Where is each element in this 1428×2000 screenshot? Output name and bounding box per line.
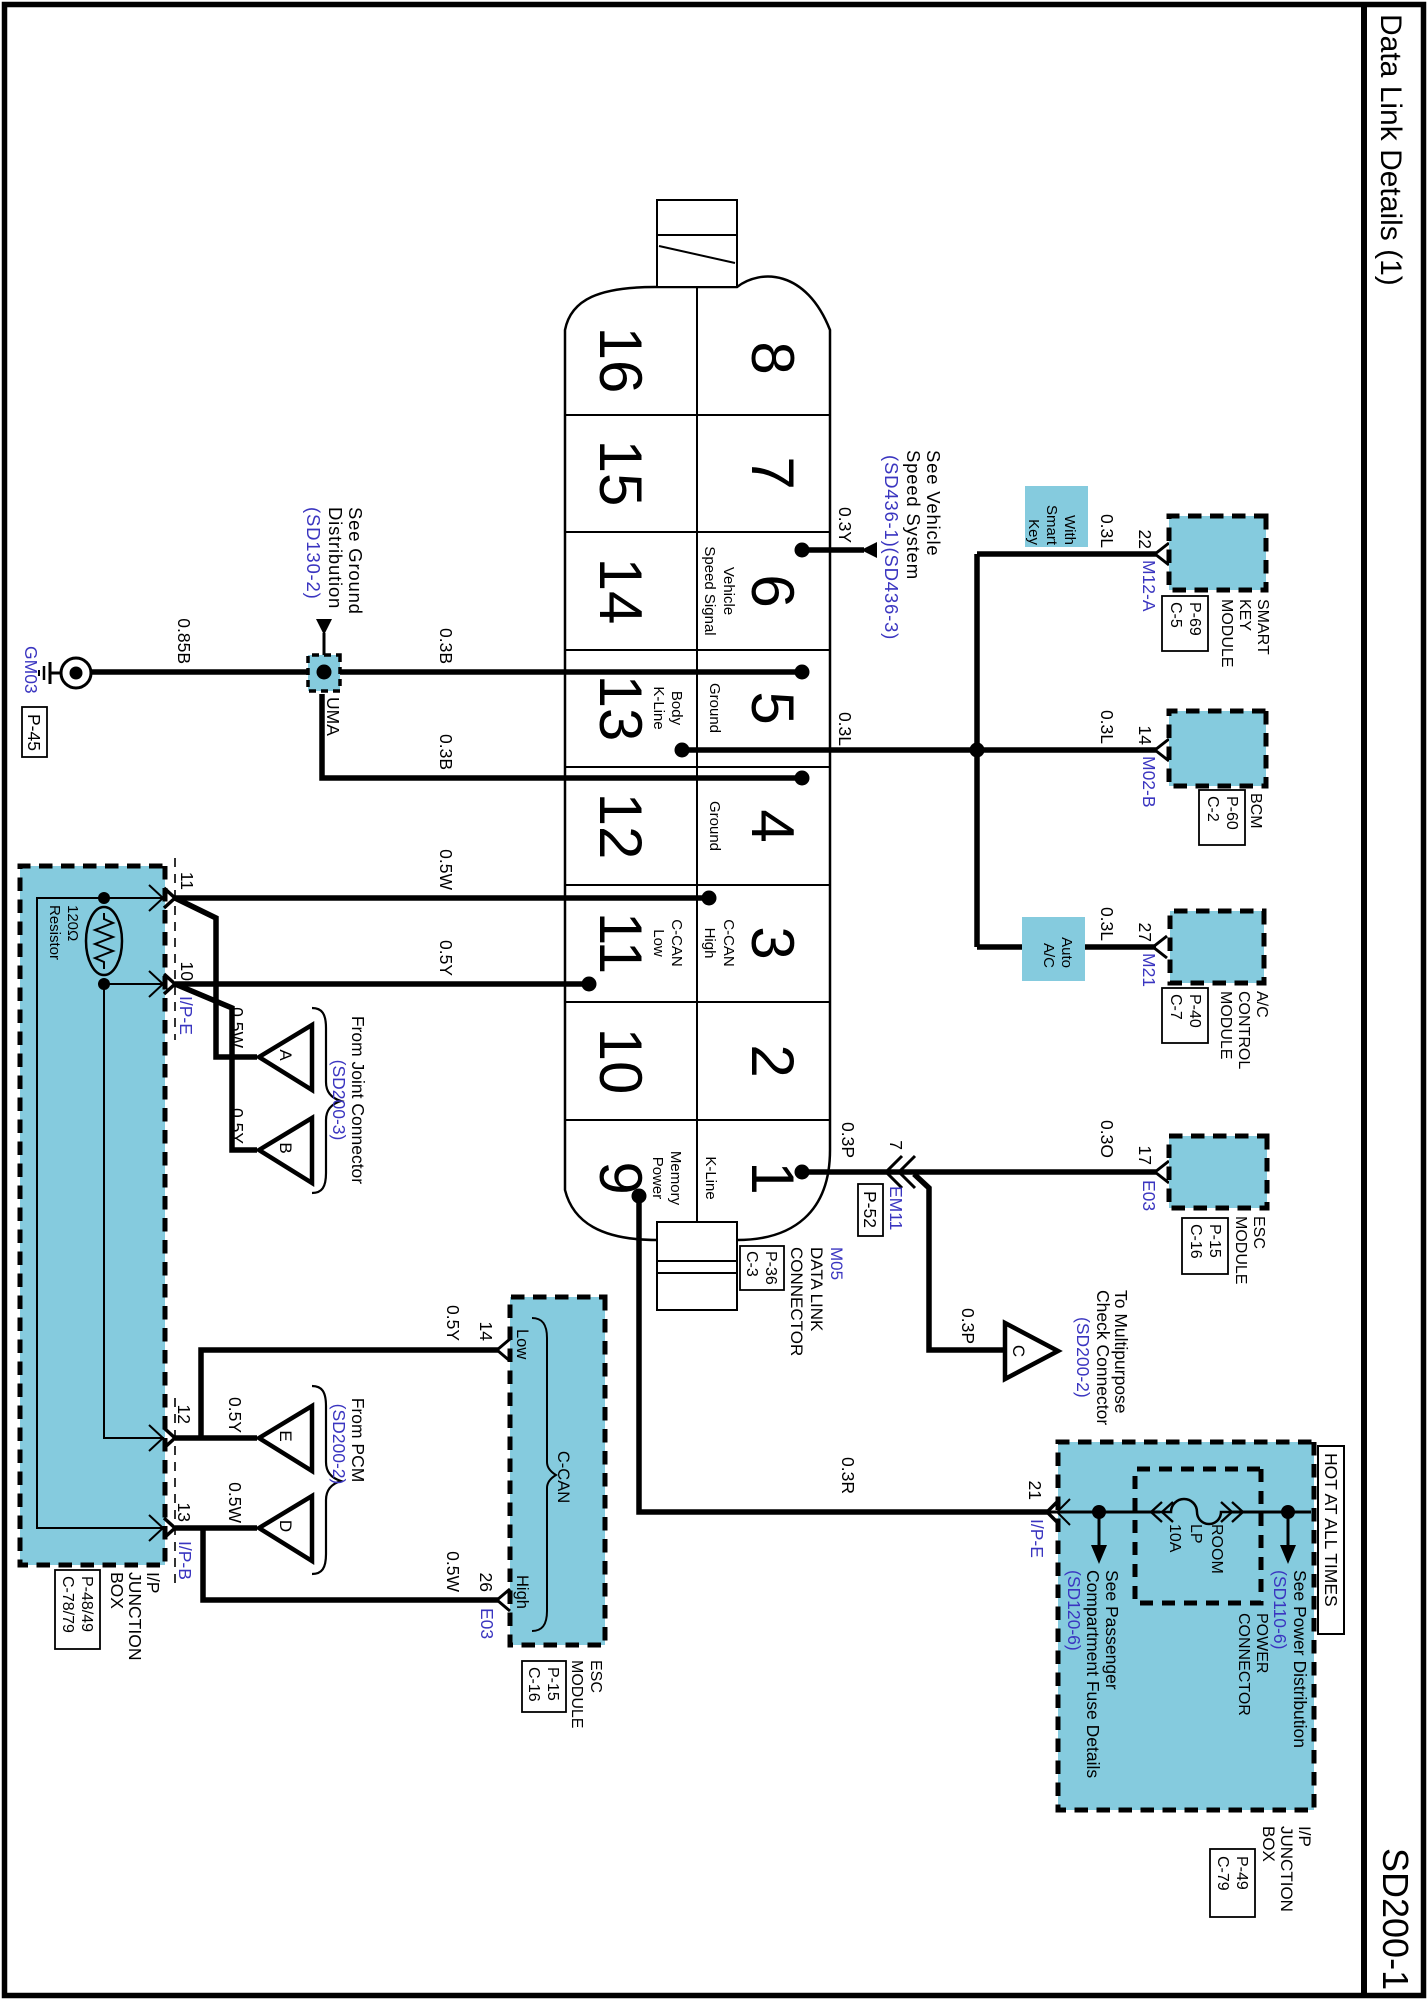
power box I/P JUNCTION BOX (top right) bbox=[1058, 1442, 1314, 1810]
svg-text:0.3Y: 0.3Y bbox=[835, 507, 855, 543]
svg-text:16: 16 bbox=[587, 327, 654, 394]
svg-text:P-45: P-45 bbox=[24, 714, 44, 751]
svg-text:(SD200-3): (SD200-3) bbox=[329, 1060, 349, 1141]
svg-text:(SD130-2): (SD130-2) bbox=[303, 507, 324, 600]
label 21 bbox=[1025, 1481, 1045, 1500]
svg-text:(SD110-6): (SD110-6) bbox=[1270, 1570, 1290, 1649]
svg-text:12: 12 bbox=[174, 1405, 194, 1424]
svg-text:0.3L: 0.3L bbox=[835, 712, 855, 746]
note To Multipurpose Check Connector bbox=[1073, 1290, 1131, 1425]
svg-text:E: E bbox=[276, 1430, 295, 1441]
node pin1 dot bbox=[795, 1165, 810, 1180]
label EM11 bbox=[886, 1186, 906, 1230]
fuse chevron upper bbox=[1221, 1502, 1243, 1522]
pin arrow E03 pin14 bbox=[497, 1339, 510, 1361]
note From Joint Connector bbox=[329, 1016, 368, 1184]
svg-text:Compartment Fuse Details: Compartment Fuse Details bbox=[1083, 1570, 1103, 1778]
svg-text:See Vehicle: See Vehicle bbox=[923, 450, 944, 557]
svg-text:8: 8 bbox=[739, 341, 806, 374]
note See Vehicle Speed System bbox=[881, 450, 944, 640]
svg-text:K-Line: K-Line bbox=[650, 686, 667, 729]
wire branch I/P pin10 to triangle B bbox=[175, 984, 257, 1150]
svg-text:14: 14 bbox=[476, 1322, 496, 1342]
arrowhead into pin6 bbox=[861, 542, 877, 558]
svg-text:11: 11 bbox=[587, 912, 654, 974]
triangle A bbox=[259, 1025, 312, 1090]
I/P-E connector dashed line bbox=[174, 858, 176, 1040]
svg-text:GM03: GM03 bbox=[21, 646, 41, 694]
triangle E bbox=[259, 1406, 312, 1471]
svg-text:UMA: UMA bbox=[323, 697, 343, 736]
svg-text:With: With bbox=[1061, 515, 1078, 545]
svg-text:0.85B: 0.85B bbox=[174, 618, 194, 664]
pin numbers bottom row 16..9 bbox=[587, 327, 654, 1195]
svg-text:HOT AT ALL TIMES: HOT AT ALL TIMES bbox=[1321, 1453, 1341, 1607]
svg-text:High: High bbox=[513, 1575, 531, 1609]
wire E03 pin26 0.5W bbox=[203, 1528, 498, 1600]
label 0.5Y (pin11) bbox=[436, 940, 456, 976]
ground GM03 symbol bbox=[39, 658, 91, 688]
svg-text:KEY: KEY bbox=[1236, 599, 1253, 631]
wire pin13 0.3L trunk to junction bbox=[682, 747, 977, 753]
label 0.3B (pin4) bbox=[436, 734, 456, 770]
svg-text:From Joint Connector: From Joint Connector bbox=[348, 1016, 368, 1184]
label pin 14 bbox=[1135, 726, 1155, 746]
svg-text:I/P-E: I/P-E bbox=[176, 996, 196, 1035]
label 0.85B bbox=[174, 618, 194, 664]
svg-text:BOX: BOX bbox=[1259, 1826, 1278, 1862]
svg-text:ROOM: ROOM bbox=[1208, 1524, 1225, 1574]
svg-text:Speed Signal: Speed Signal bbox=[701, 546, 718, 635]
label I/P-E (power box) bbox=[1027, 1519, 1047, 1558]
svg-text:See Power Distribution: See Power Distribution bbox=[1290, 1570, 1310, 1748]
svg-text:(SD436-1)(SD436-3): (SD436-1)(SD436-3) bbox=[881, 455, 902, 640]
thin wire resistor B to pin12 bbox=[104, 984, 164, 1438]
arrow See Passenger Compartment bbox=[1280, 1512, 1296, 1564]
svg-text:E03: E03 bbox=[477, 1608, 497, 1639]
svg-text:120Ω: 120Ω bbox=[64, 905, 81, 941]
svg-text:M12-A: M12-A bbox=[1139, 560, 1159, 612]
label ESC MODULE (top) bbox=[1182, 1216, 1267, 1284]
svg-text:C-16: C-16 bbox=[525, 1667, 542, 1702]
junction UMA square bbox=[308, 655, 340, 691]
svg-text:P-15: P-15 bbox=[1206, 1224, 1223, 1258]
label 0.3P bbox=[838, 1122, 858, 1158]
wire inside power box bbox=[1048, 1511, 1311, 1514]
svg-text:0.5W: 0.5W bbox=[436, 849, 456, 890]
svg-text:A: A bbox=[276, 1049, 295, 1061]
label P-52 box bbox=[858, 1184, 883, 1236]
wire pin3 C-CAN High 0.5W to I/P pin11 bbox=[175, 895, 709, 901]
svg-text:0.5W: 0.5W bbox=[443, 1551, 463, 1592]
label 0.3Y bbox=[835, 507, 855, 543]
thin wire resistor to pin11 bbox=[104, 897, 164, 899]
note See Passenger Compartment Fuse Details bbox=[1064, 1570, 1122, 1778]
svg-text:From PCM: From PCM bbox=[348, 1398, 368, 1483]
I/P junction box (bottom) bbox=[20, 866, 165, 1565]
svg-text:MODULE: MODULE bbox=[568, 1660, 585, 1728]
brace From PCM bbox=[312, 1386, 341, 1574]
node pin9 dot bbox=[632, 1189, 647, 1204]
thin wire resistor A loop to pin13 bbox=[37, 898, 164, 1528]
label 0.5Y (E03 pin14) bbox=[443, 1305, 463, 1341]
label BCM bbox=[1199, 790, 1264, 845]
svg-text:High: High bbox=[701, 928, 718, 959]
svg-text:P-48/49: P-48/49 bbox=[78, 1576, 95, 1632]
svg-text:P-60: P-60 bbox=[1223, 796, 1240, 830]
svg-text:To Multipurpose: To Multipurpose bbox=[1111, 1290, 1131, 1414]
pin 12 connector chevrons bbox=[149, 1425, 175, 1451]
svg-text:Body: Body bbox=[668, 691, 685, 726]
svg-text:A/C: A/C bbox=[1040, 943, 1057, 968]
svg-text:27: 27 bbox=[1135, 923, 1155, 942]
svg-text:9: 9 bbox=[587, 1161, 654, 1194]
svg-text:LP: LP bbox=[1187, 1524, 1204, 1544]
wire branch to triangle C 0.3P bbox=[914, 1174, 1004, 1350]
label 0.3L A/C bbox=[1097, 907, 1117, 941]
label 0.5W (E03 pin26) bbox=[443, 1551, 463, 1592]
label 0.3L BCM bbox=[1097, 710, 1117, 744]
svg-text:10: 10 bbox=[587, 1028, 654, 1095]
node power dot upper bbox=[1281, 1505, 1295, 1519]
svg-text:Low: Low bbox=[513, 1329, 531, 1359]
module ESC box (top) bbox=[1169, 1136, 1267, 1208]
label GM03 bbox=[21, 646, 41, 694]
svg-text:2: 2 bbox=[739, 1044, 806, 1077]
label 13 bbox=[174, 1503, 194, 1522]
svg-text:CONNECTOR: CONNECTOR bbox=[787, 1247, 806, 1356]
svg-text:Low: Low bbox=[650, 929, 667, 957]
svg-text:11: 11 bbox=[177, 872, 197, 890]
svg-text:1: 1 bbox=[739, 1161, 806, 1194]
label Low bbox=[513, 1329, 531, 1359]
node pin3 dot bbox=[702, 891, 717, 906]
svg-text:(SD120-6): (SD120-6) bbox=[1064, 1570, 1084, 1651]
svg-text:Vehicle: Vehicle bbox=[720, 567, 737, 615]
svg-text:Auto: Auto bbox=[1058, 937, 1075, 968]
tag With Smart Key bbox=[1025, 486, 1088, 547]
svg-text:12: 12 bbox=[587, 793, 654, 860]
svg-text:B: B bbox=[276, 1142, 295, 1153]
POWER CONNECTOR inner dashed box bbox=[1135, 1469, 1261, 1603]
svg-text:0.5W: 0.5W bbox=[225, 1482, 245, 1523]
label A/C CONTROL MODULE bbox=[1162, 988, 1270, 1069]
svg-text:M02-B: M02-B bbox=[1139, 756, 1159, 808]
svg-text:Ground: Ground bbox=[706, 801, 723, 851]
triangle B bbox=[259, 1118, 312, 1183]
svg-text:10: 10 bbox=[177, 962, 197, 982]
svg-text:C-5: C-5 bbox=[1167, 602, 1184, 628]
svg-text:EM11: EM11 bbox=[886, 1186, 906, 1230]
brace C-CAN bbox=[532, 1318, 556, 1631]
svg-text:CONTROL: CONTROL bbox=[1235, 991, 1252, 1069]
svg-text:MODULE: MODULE bbox=[1232, 1216, 1249, 1284]
svg-text:3: 3 bbox=[739, 926, 806, 959]
label UMA bbox=[323, 697, 343, 736]
svg-text:14: 14 bbox=[1135, 726, 1155, 746]
label 0.3O bbox=[1097, 1120, 1117, 1158]
pin arrow ESC(E03) top bbox=[1155, 1161, 1169, 1183]
svg-text:C-7: C-7 bbox=[1167, 994, 1184, 1020]
svg-text:0.5Y: 0.5Y bbox=[227, 1108, 247, 1144]
svg-text:C-79: C-79 bbox=[1214, 1856, 1231, 1891]
label I/P-E (bottom box) bbox=[176, 996, 196, 1035]
svg-text:Power: Power bbox=[649, 1157, 666, 1200]
label 14 (E03) bbox=[476, 1322, 496, 1342]
svg-text:7: 7 bbox=[886, 1140, 906, 1150]
title: SD200-1 bbox=[1375, 1848, 1416, 1990]
svg-text:ESC: ESC bbox=[587, 1660, 604, 1693]
svg-text:CONNECTOR: CONNECTOR bbox=[1235, 1613, 1252, 1716]
svg-text:Ground: Ground bbox=[706, 683, 723, 733]
svg-text:I/P: I/P bbox=[143, 1572, 163, 1593]
label pin 27 bbox=[1135, 923, 1155, 942]
svg-text:See Ground: See Ground bbox=[345, 507, 366, 615]
connector right tab bbox=[657, 1222, 737, 1310]
triangle C bbox=[1005, 1323, 1058, 1379]
svg-text:0.3O: 0.3O bbox=[1097, 1120, 1117, 1158]
wire pin6 vehicle speed 0.3Y bbox=[802, 547, 864, 553]
svg-text:MODULE: MODULE bbox=[1217, 991, 1234, 1059]
svg-text:Memory: Memory bbox=[667, 1151, 684, 1206]
svg-text:17: 17 bbox=[1135, 1146, 1155, 1165]
fuse ROOM LP 10A bbox=[1160, 1499, 1232, 1524]
label High bbox=[513, 1575, 531, 1609]
svg-text:Speed System: Speed System bbox=[903, 450, 924, 580]
label 0.3L (trunk) bbox=[835, 712, 855, 746]
label 17 bbox=[1135, 1146, 1155, 1165]
thin wire resistor to pin10 bbox=[104, 983, 164, 985]
pin arrow E03 pin26 bbox=[497, 1589, 510, 1611]
svg-text:A/C: A/C bbox=[1253, 991, 1270, 1018]
triangle D bbox=[259, 1496, 312, 1561]
svg-text:15: 15 bbox=[587, 440, 654, 507]
wire pin4 to UMA 0.3B bbox=[322, 694, 802, 778]
svg-text:MODULE: MODULE bbox=[1218, 599, 1235, 667]
node pin5 dot bbox=[795, 665, 810, 680]
svg-text:See Passenger: See Passenger bbox=[1102, 1570, 1122, 1690]
wire to BCM bbox=[977, 747, 1156, 753]
svg-text:C: C bbox=[1009, 1345, 1028, 1357]
wire to smart key module bbox=[977, 551, 1156, 557]
wire branch I/P pin11 to triangle A bbox=[175, 898, 257, 1057]
svg-text:DATA LINK: DATA LINK bbox=[807, 1247, 826, 1332]
wire branch bus to modules bbox=[974, 554, 980, 947]
label 10 bbox=[177, 962, 197, 982]
svg-text:P-40: P-40 bbox=[1186, 994, 1203, 1028]
label ROOM LP 10A bbox=[1166, 1524, 1225, 1574]
svg-text:7: 7 bbox=[739, 456, 806, 489]
fuse chevron lower bbox=[1151, 1502, 1173, 1522]
note See Power Distribution bbox=[1270, 1570, 1310, 1748]
I/P-B connector dashed line bbox=[174, 1398, 176, 1588]
svg-text:ESC: ESC bbox=[1250, 1216, 1267, 1249]
pin 13 connector chevrons bbox=[149, 1515, 175, 1541]
pin 10 connector chevrons bbox=[149, 971, 175, 997]
note See Ground Distribution bbox=[303, 507, 366, 615]
pin arrow BCM bbox=[1155, 739, 1169, 761]
svg-text:13: 13 bbox=[587, 675, 654, 742]
wire I/P pin13 to triangle D bbox=[175, 1525, 257, 1531]
inline connector EM11 chevrons bbox=[886, 1156, 915, 1188]
svg-text:POWER: POWER bbox=[1253, 1613, 1270, 1673]
tag Auto A/C bbox=[1022, 917, 1085, 981]
svg-text:0.3P: 0.3P bbox=[838, 1122, 858, 1158]
svg-text:I/P-E: I/P-E bbox=[1027, 1519, 1047, 1558]
pin numbers top row 8..1 bbox=[739, 341, 806, 1194]
module ESC E03 box (bottom) bbox=[510, 1297, 605, 1645]
wire UMA to GM03 0.85B bbox=[91, 669, 308, 675]
svg-text:M21: M21 bbox=[1139, 953, 1159, 987]
arrow from See Ground Distribution bbox=[316, 619, 332, 655]
svg-text:0.3L: 0.3L bbox=[1097, 907, 1117, 941]
label SMART KEY MODULE bbox=[1162, 596, 1271, 667]
resistor label 120ohm Resistor bbox=[46, 905, 81, 960]
svg-text:K-Line: K-Line bbox=[702, 1156, 719, 1199]
svg-text:BCM: BCM bbox=[1247, 793, 1264, 829]
label E03 bbox=[1139, 1180, 1159, 1211]
svg-text:C-2: C-2 bbox=[1204, 796, 1221, 822]
label I/P JUNCTION BOX (bottom) bbox=[55, 1570, 163, 1660]
label 12 bbox=[174, 1405, 194, 1424]
label 0.3B (pin5) bbox=[436, 628, 456, 664]
node junction dot bbox=[970, 743, 985, 758]
pin 11 connector chevrons bbox=[149, 885, 175, 911]
svg-text:Key: Key bbox=[1025, 519, 1042, 545]
node pin13 dot bbox=[675, 743, 690, 758]
label 0.3R bbox=[838, 1457, 858, 1494]
wire pin5 to UMA 0.3B bbox=[336, 669, 802, 675]
svg-text:Check Connector: Check Connector bbox=[1093, 1290, 1113, 1425]
svg-text:I/P: I/P bbox=[1295, 1826, 1314, 1847]
title: Data Link Details (1) bbox=[1374, 14, 1407, 286]
svg-text:I/P-B: I/P-B bbox=[175, 1541, 195, 1580]
svg-text:C-CAN: C-CAN bbox=[720, 919, 737, 967]
svg-text:(SD200-2): (SD200-2) bbox=[329, 1404, 349, 1485]
label M12-A bbox=[1139, 560, 1159, 612]
svg-text:26: 26 bbox=[476, 1573, 496, 1592]
label HOT AT ALL TIMES bbox=[1318, 1446, 1344, 1634]
svg-text:0.5W: 0.5W bbox=[227, 1007, 247, 1048]
svg-text:22: 22 bbox=[1135, 530, 1155, 549]
svg-text:M05: M05 bbox=[827, 1247, 846, 1280]
wire to A/C module bbox=[977, 944, 1156, 950]
svg-text:Distribution: Distribution bbox=[325, 507, 346, 609]
wire pin1 K-line 0.3P bbox=[802, 1169, 1156, 1175]
connector M05 body outline bbox=[565, 277, 830, 1240]
label 26 (E03) bbox=[476, 1573, 496, 1592]
svg-text:Smart: Smart bbox=[1043, 505, 1060, 546]
brace From Joint Connector bbox=[312, 1008, 341, 1193]
svg-text:0.3L: 0.3L bbox=[1097, 514, 1117, 548]
node pin6 dot bbox=[795, 543, 810, 558]
svg-text:P-69: P-69 bbox=[1186, 602, 1203, 636]
svg-text:JUNCTION: JUNCTION bbox=[125, 1572, 145, 1660]
label I/P JUNCTION BOX (power) bbox=[1210, 1826, 1314, 1917]
wire pin9 Memory Power 0.3R bbox=[639, 1196, 1048, 1512]
label M21 bbox=[1139, 953, 1159, 987]
svg-text:JUNCTION: JUNCTION bbox=[1277, 1826, 1296, 1912]
node resistor dot B bbox=[98, 978, 110, 990]
node UMA dot bbox=[317, 665, 332, 680]
svg-text:C-78/79: C-78/79 bbox=[59, 1576, 76, 1633]
label 0.5W (triangle A) bbox=[227, 1007, 247, 1048]
label 11 bbox=[177, 872, 197, 890]
wire pin11 C-CAN Low 0.5Y to I/P pin10 bbox=[175, 981, 589, 987]
svg-text:0.5Y: 0.5Y bbox=[225, 1397, 245, 1433]
svg-text:13: 13 bbox=[174, 1503, 194, 1522]
arrow See Power Distribution bbox=[1091, 1512, 1107, 1564]
svg-text:5: 5 bbox=[739, 691, 806, 724]
svg-text:SD200-1: SD200-1 bbox=[1375, 1848, 1416, 1990]
label 0.5Y (triangle B) bbox=[227, 1108, 247, 1144]
label P-45 box bbox=[22, 707, 47, 757]
svg-text:C-3: C-3 bbox=[743, 1251, 760, 1277]
node pin11 dot bbox=[582, 977, 597, 992]
module BCM box bbox=[1169, 711, 1266, 786]
svg-text:C-CAN: C-CAN bbox=[554, 1451, 572, 1503]
label POWER CONNECTOR bbox=[1235, 1613, 1270, 1716]
label E03 bbox=[477, 1608, 497, 1639]
module SMART KEY box bbox=[1169, 516, 1266, 590]
label ESC MODULE (bottom) bbox=[522, 1660, 604, 1728]
label 0.5W (pin3) bbox=[436, 849, 456, 890]
label 0.3P (branch) bbox=[958, 1308, 978, 1344]
svg-text:6: 6 bbox=[739, 574, 806, 607]
svg-text:0.3P: 0.3P bbox=[958, 1308, 978, 1344]
connector left tab bbox=[657, 200, 737, 287]
svg-text:0.3R: 0.3R bbox=[838, 1457, 858, 1494]
M05 DATA LINK CONNECTOR label bbox=[740, 1246, 846, 1356]
svg-text:0.5Y: 0.5Y bbox=[436, 940, 456, 976]
label C-CAN bbox=[554, 1451, 572, 1503]
pin 21 connector chevrons bbox=[1047, 1499, 1070, 1525]
label 7 bbox=[886, 1140, 906, 1150]
svg-text:0.3B: 0.3B bbox=[436, 628, 456, 664]
label 0.3L smart key bbox=[1097, 514, 1117, 548]
note From PCM bbox=[329, 1398, 368, 1485]
node power dot lower bbox=[1092, 1505, 1106, 1519]
label 0.5Y (triangle E) bbox=[225, 1397, 245, 1433]
label 0.5W (triangle D) bbox=[225, 1482, 245, 1523]
svg-text:P-15: P-15 bbox=[544, 1667, 561, 1701]
svg-text:Resistor: Resistor bbox=[46, 905, 63, 960]
pin arrow A/C bbox=[1153, 936, 1167, 958]
svg-text:14: 14 bbox=[587, 558, 654, 625]
svg-text:Data Link Details (1): Data Link Details (1) bbox=[1374, 14, 1407, 286]
pin arrow smart key bbox=[1155, 543, 1169, 565]
svg-text:SMART: SMART bbox=[1254, 599, 1271, 655]
connector grid lines bbox=[558, 287, 838, 1240]
svg-text:P-52: P-52 bbox=[860, 1191, 880, 1228]
svg-text:10A: 10A bbox=[1166, 1524, 1183, 1553]
svg-text:21: 21 bbox=[1025, 1481, 1045, 1500]
label I/P-B bbox=[175, 1541, 195, 1580]
svg-text:BOX: BOX bbox=[107, 1572, 127, 1609]
svg-text:4: 4 bbox=[739, 809, 806, 842]
resistor 120ohm bbox=[86, 907, 122, 975]
svg-text:D: D bbox=[276, 1520, 295, 1532]
svg-text:0.3L: 0.3L bbox=[1097, 710, 1117, 744]
svg-text:C-16: C-16 bbox=[1187, 1224, 1204, 1259]
svg-text:P-36: P-36 bbox=[762, 1251, 779, 1285]
svg-text:P-49: P-49 bbox=[1233, 1856, 1250, 1890]
svg-text:0.3B: 0.3B bbox=[436, 734, 456, 770]
wire E03 pin14 0.5Y bbox=[201, 1350, 498, 1438]
svg-text:E03: E03 bbox=[1139, 1180, 1159, 1211]
pin function labels bbox=[649, 546, 737, 1205]
label M02-B bbox=[1139, 756, 1159, 808]
